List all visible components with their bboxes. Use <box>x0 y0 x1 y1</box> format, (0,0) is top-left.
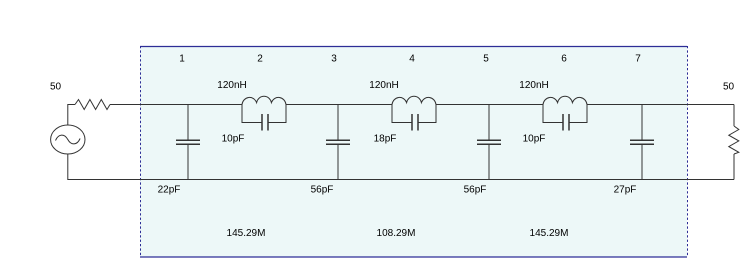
capacitor C6 10pF (parallel with L3) <box>543 105 587 131</box>
schematic region box <box>140 46 688 258</box>
svg-text:7: 7 <box>635 54 641 65</box>
wire node2-3 <box>286 104 392 106</box>
capacitor C5 56pF shunt <box>477 105 501 180</box>
wire top main <box>110 104 242 106</box>
svg-text:6: 6 <box>561 54 567 65</box>
svg-text:120nH: 120nH <box>369 80 398 91</box>
svg-text:108.29M: 108.29M <box>377 228 416 239</box>
capacitor C1 22pF shunt <box>176 105 200 180</box>
capacitor C4 18pF (parallel with L2) <box>392 105 436 131</box>
resistor R1 <box>75 100 110 110</box>
source V1 <box>51 125 85 154</box>
svg-text:10pF: 10pF <box>523 134 546 145</box>
svg-text:27pF: 27pF <box>614 185 637 196</box>
svg-text:120nH: 120nH <box>519 80 548 91</box>
svg-text:56pF: 56pF <box>464 185 487 196</box>
wire load bottom <box>733 154 735 180</box>
svg-text:145.29M: 145.29M <box>227 228 266 239</box>
svg-text:2: 2 <box>257 54 263 65</box>
svg-text:50: 50 <box>50 82 62 93</box>
svg-text:10pF: 10pF <box>222 134 245 145</box>
wire node4-5 <box>436 104 543 106</box>
svg-text:3: 3 <box>331 54 337 65</box>
svg-text:18pF: 18pF <box>374 134 397 145</box>
capacitor C7 27pF shunt <box>630 105 654 180</box>
svg-text:50: 50 <box>723 82 735 93</box>
wire load top <box>733 105 735 127</box>
svg-text:5: 5 <box>483 54 489 65</box>
capacitor C3 56pF shunt <box>326 105 350 180</box>
inductor L2 120nH <box>392 96 436 104</box>
capacitor C2 10pF (parallel with L1) <box>242 105 286 131</box>
wire source bottom <box>68 154 734 180</box>
svg-text:1: 1 <box>179 54 185 65</box>
svg-text:22pF: 22pF <box>158 185 181 196</box>
svg-text:120nH: 120nH <box>217 80 246 91</box>
svg-text:145.29M: 145.29M <box>530 228 569 239</box>
svg-text:4: 4 <box>409 54 415 65</box>
wire source top <box>68 105 75 126</box>
resistor R2 load <box>729 126 739 154</box>
svg-text:56pF: 56pF <box>311 185 334 196</box>
inductor L3 120nH <box>543 96 587 104</box>
inductor L1 120nH <box>242 96 286 104</box>
wire node6-7 <box>587 104 734 106</box>
